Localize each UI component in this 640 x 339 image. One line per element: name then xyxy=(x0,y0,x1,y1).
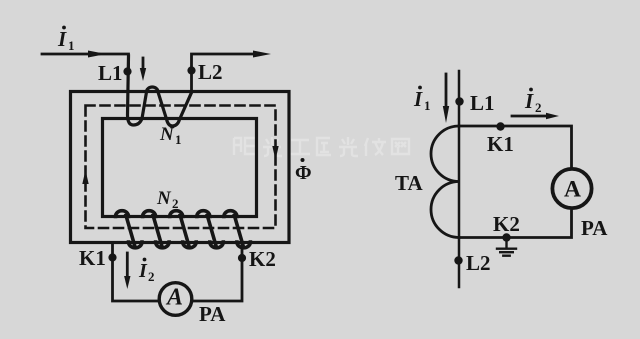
svg-text:K1: K1 xyxy=(79,246,106,270)
CT winding TA xyxy=(431,126,459,238)
label I2 (left) xyxy=(138,258,155,284)
svg-text:1: 1 xyxy=(424,98,431,113)
svg-text:K2: K2 xyxy=(493,212,520,236)
node L1 xyxy=(123,67,131,75)
svg-text:I: I xyxy=(138,260,148,282)
wire: main primary conductor xyxy=(458,71,461,287)
wire: primary lead-out from L2 xyxy=(192,54,259,92)
core outer rectangle xyxy=(71,92,290,243)
svg-text:2: 2 xyxy=(148,269,155,284)
wire: ammeter to K2 xyxy=(193,243,242,302)
svg-text:K1: K1 xyxy=(487,132,514,156)
node K1 (right) xyxy=(496,122,504,130)
node K2 (right) xyxy=(502,233,510,241)
wire: K1 to ammeter xyxy=(113,243,160,302)
core dashed flux line xyxy=(86,106,276,229)
label N1 xyxy=(159,124,182,147)
label I1 (right) xyxy=(413,86,431,113)
伏 xyxy=(365,138,386,156)
光 xyxy=(339,137,358,156)
svg-text:A: A xyxy=(165,285,183,311)
node L1 (right) xyxy=(455,97,463,105)
ground symbol xyxy=(497,238,516,256)
label I1 (left) xyxy=(57,26,75,53)
label I2 (right) xyxy=(524,88,542,115)
ammeter PA (left) xyxy=(159,283,192,316)
flux arrow up (left limb) xyxy=(82,170,88,184)
arrowhead on lead-in wire xyxy=(88,51,106,58)
光 xyxy=(263,137,282,156)
wire: primary lead-in to L1 xyxy=(42,54,129,70)
short current arrow into winding xyxy=(142,58,145,72)
node K2 xyxy=(238,254,246,262)
svg-text:PA: PA xyxy=(199,302,226,326)
label N2 xyxy=(156,188,179,211)
primary current arrow I1 xyxy=(445,74,448,108)
阳 xyxy=(234,138,241,155)
svg-text:I: I xyxy=(57,27,67,51)
flux arrow down (right limb) xyxy=(272,146,278,160)
node L2 (right) xyxy=(454,256,462,264)
svg-text:I: I xyxy=(524,89,534,113)
core inner rectangle xyxy=(103,119,257,217)
primary winding N1 xyxy=(128,56,192,126)
svg-text:K2: K2 xyxy=(249,247,276,271)
网 xyxy=(392,139,409,154)
wire: ammeter to K2 (right) xyxy=(459,211,572,238)
工 xyxy=(289,140,310,154)
node L2 xyxy=(187,66,195,74)
svg-text:N: N xyxy=(159,124,175,145)
secondary winding N2 xyxy=(116,211,251,248)
svg-text:2: 2 xyxy=(172,196,179,211)
svg-text:L1: L1 xyxy=(470,91,495,115)
svg-text:L2: L2 xyxy=(198,60,223,84)
svg-text:L2: L2 xyxy=(466,251,491,275)
svg-text:PA: PA xyxy=(581,216,608,240)
svg-text:N: N xyxy=(156,188,172,209)
svg-text:1: 1 xyxy=(68,38,75,53)
svg-text:Φ: Φ xyxy=(295,162,312,184)
label flux Phi xyxy=(295,158,312,184)
svg-text:I: I xyxy=(413,87,423,111)
svg-text:2: 2 xyxy=(535,100,542,115)
secondary current arrow I2 (right) xyxy=(512,115,548,118)
svg-text:L1: L1 xyxy=(98,61,123,85)
svg-text:TA: TA xyxy=(395,171,423,195)
匠 xyxy=(317,138,331,155)
secondary current arrow I2 xyxy=(126,253,129,277)
ammeter PA (right) xyxy=(552,169,591,208)
watermark 阳光工匠光伏网 (drawn as faint strokes) xyxy=(234,137,409,156)
wire: K1 to ammeter (right) xyxy=(459,126,572,168)
node K1 xyxy=(108,253,116,261)
svg-text:1: 1 xyxy=(175,132,182,147)
svg-text:A: A xyxy=(564,177,581,203)
